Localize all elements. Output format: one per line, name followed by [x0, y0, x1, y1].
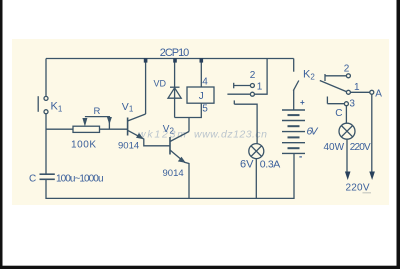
svg-text:www.dz123.cn: www.dz123.cn — [194, 129, 267, 141]
resistor R (rheostat body) — [73, 126, 100, 132]
diode VD triangle — [168, 88, 181, 98]
svg-text:6V: 6V — [240, 159, 254, 171]
mains arrow left — [345, 172, 351, 181]
svg-text:9014: 9014 — [118, 141, 139, 152]
svg-text:A: A — [375, 89, 382, 100]
svg-text:9014: 9014 — [163, 168, 184, 179]
junction V1 collector / top rail — [144, 58, 148, 63]
svg-text:220V: 220V — [350, 142, 371, 153]
selector terminal 3 lead (node C) — [327, 97, 348, 106]
svg-text:2CP10: 2CP10 — [160, 47, 190, 59]
junction diode VD / top rail — [173, 58, 177, 63]
svg-text:3: 3 — [349, 98, 355, 109]
svg-text:100u~1000u: 100u~1000u — [56, 173, 104, 184]
battery GB 6V long plates — [282, 110, 305, 153]
selector terminal 1 and node A — [346, 90, 373, 94]
svg-text:J: J — [199, 91, 204, 102]
wiper arrow right — [107, 117, 112, 125]
relay contact armature wire to lamp — [234, 100, 257, 143]
svg-text:4: 4 — [202, 76, 208, 87]
relay contact terminal 2 lead — [234, 83, 255, 89]
transistor V1 collector lead — [128, 59, 146, 122]
svg-text:0.3A: 0.3A — [260, 159, 281, 171]
svg-text:C: C — [335, 108, 342, 119]
diode VD vertical wire — [174, 59, 176, 118]
selector blade — [320, 81, 347, 92]
transistor V2 emitter arrow — [178, 157, 186, 163]
svg-text:220V: 220V — [346, 183, 370, 194]
capacitor C — [40, 174, 55, 179]
relay contact terminal 1 and wire to top rail — [227, 59, 267, 97]
transistor V2 base bar — [169, 137, 171, 155]
transistor V1 emitter lead to V2 base — [128, 130, 170, 146]
mains arrow right — [369, 172, 375, 181]
relay coil pin 5 wire to diode bottom — [175, 103, 202, 117]
wire terminal 3 to lamp EL2 — [345, 106, 347, 123]
switch K1 (push button) — [38, 96, 48, 114]
wiper arrow left — [82, 118, 87, 127]
relay coil pin 4 wire — [200, 59, 202, 88]
svg-text:1: 1 — [257, 81, 263, 92]
switch K2 — [293, 59, 299, 111]
transistor V1 base bar — [127, 118, 129, 136]
junction relay pin4 / top rail — [200, 58, 204, 63]
svg-text:100K: 100K — [71, 140, 96, 151]
svg-text:5: 5 — [202, 103, 208, 114]
transistor V2 collector lead to relay coil — [170, 118, 189, 142]
transistor V2 emitter lead to ground rail — [170, 150, 189, 198]
wire left rail upper segment to K1 — [45, 59, 47, 97]
transistor V1 emitter arrow — [136, 133, 144, 139]
svg-text:2: 2 — [344, 64, 350, 75]
wire lamp EL2 to mains — [346, 139, 348, 172]
svg-text:VD: VD — [154, 78, 167, 88]
wire resistor R to V1 base — [100, 128, 128, 130]
wire top positive rail — [46, 58, 294, 60]
svg-text:40W: 40W — [324, 142, 345, 153]
lamp EL2 40W 220V — [339, 123, 355, 139]
battery GB 6V short plates — [288, 115, 300, 148]
svg-text:C: C — [29, 174, 36, 185]
wire lamp EL1 to ground rail — [255, 159, 257, 199]
svg-text:-: - — [299, 152, 302, 163]
wiper link of rheostat R — [85, 117, 110, 130]
svg-text:1: 1 — [354, 82, 360, 93]
wire node A to mains — [371, 94, 373, 172]
svg-text:R: R — [94, 106, 101, 117]
wire left rail lower segment K1 to capacitor C — [45, 114, 47, 174]
relay coil J box — [187, 87, 214, 103]
svg-text:+: + — [300, 98, 305, 107]
selector switch terminal 2 lead — [325, 74, 350, 81]
wire bottom ground rail — [46, 153, 294, 198]
wire branch from left rail to resistor R — [46, 128, 73, 130]
svg-text:6V: 6V — [307, 126, 319, 138]
svg-text:V2: V2 — [163, 124, 175, 136]
svg-text:2: 2 — [250, 70, 256, 81]
diode VD cathode bar — [170, 86, 180, 88]
lamp EL1 6V 0.3A — [249, 144, 264, 159]
